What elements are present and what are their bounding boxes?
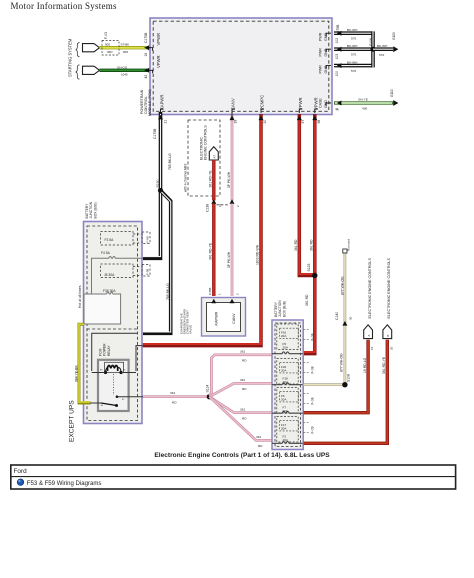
wire case ground GN to G110 [334,98,393,111]
svg-text:ST-BK: ST-BK [121,43,130,47]
svg-text:20A: 20A [281,426,286,430]
svg-text:20A: 20A [283,380,288,384]
wire 361 RD-YE to EVAP valve [212,204,215,297]
svg-text:361: 361 [256,435,261,439]
label EVAP valve [179,309,192,334]
svg-text:16: 16 [144,53,148,57]
svg-text:361: 361 [240,349,245,353]
svg-text:PWR: PWR [319,32,323,41]
connector C140 arrow [342,321,347,326]
svg-text:102: 102 [335,38,339,44]
svg-text:F-09: F-09 [310,426,314,433]
svg-text:G110: G110 [390,89,394,97]
wire PK-WH to EVAP valve [231,204,234,297]
svg-text:570: 570 [351,53,356,57]
coil feed wires inside BJB [92,333,137,371]
splice S108 [342,382,347,387]
svg-text:905: 905 [123,50,128,54]
svg-text:361 RD-YE: 361 RD-YE [208,170,212,188]
wire 361 RD-YE from F2 to connector B [304,340,388,444]
fuse F3 5A [101,232,151,246]
svg-text:16: 16 [370,346,374,350]
svg-text:RELAY: RELAY [107,345,111,356]
PCM right pin names [319,32,328,108]
svg-text:GN-OG: GN-OG [117,65,128,69]
wire 19 RD-LG from F7 to connector A [304,340,369,413]
svg-text:F3 5A: F3 5A [105,238,115,242]
svg-text:570: 570 [351,69,356,73]
svg-text:F36 30A: F36 30A [103,289,116,293]
svg-text:361: 361 [240,378,245,382]
fuse groups right BJB [272,324,303,443]
svg-text:361 RD: 361 RD [309,239,313,251]
svg-text:785 BK-LG: 785 BK-LG [168,153,172,170]
PCM right pin numbers [335,24,340,110]
svg-text:VPWR: VPWR [156,55,161,68]
svg-text:ENGINE CONTROLS: ENGINE CONTROLS [204,125,208,160]
wire S114 to fuse F7 [209,397,272,421]
svg-text:PCMPC: PCMPC [260,95,265,110]
brace 1 [76,43,80,57]
splice S123 [312,273,317,278]
battery junction box right [272,320,303,450]
fuse F4 5A feeding KAPWR [92,251,144,294]
label BJB left [85,201,97,218]
svg-text:J5 30A: J5 30A [104,273,115,277]
svg-text:1045: 1045 [121,73,128,77]
svg-text:VALVE: VALVE [188,325,192,334]
connector labels F-08 / F-09 [304,330,315,434]
svg-text:RD: RD [242,387,247,391]
svg-text:361: 361 [240,407,245,411]
fuse F36 30A on battery bus [84,289,121,324]
svg-text:100: 100 [335,71,339,77]
label BJB right [274,300,286,317]
svg-text:10: 10 [218,203,222,207]
svg-text:361 RD: 361 RD [305,294,309,306]
wire KAPWR 785 BK-LG from PCM [158,112,163,191]
wire yellow 905 to PCM pin 16 [100,45,153,51]
connector B [383,325,392,339]
wire S114 to fuse F2 [209,397,272,448]
svg-text:19 RD-LG: 19 RD-LG [363,357,367,373]
svg-text:BOX (BJB): BOX (BJB) [282,301,286,317]
PCM right pin hooks [326,33,331,36]
svg-text:ELECTRONIC ENGINE CONTROLS: ELECTRONIC ENGINE CONTROLS [387,258,391,319]
PCM bottom pin names [159,95,318,113]
svg-text:361 RD-YE: 361 RD-YE [382,356,386,374]
battery junction box left [84,222,143,424]
svg-text:CASE: CASE [319,98,323,108]
wire 361 RD-YE from EEC [212,160,215,201]
svg-text:20A: 20A [283,409,288,413]
wire CANV PK-WH from PCM [230,112,235,201]
svg-text:S106: S106 [369,38,373,46]
svg-text:785 BK-LG: 785 BK-LG [166,283,170,300]
splice S106 [371,47,376,52]
svg-text:20A: 20A [281,368,286,372]
svg-text:S108: S108 [347,374,351,382]
svg-text:Electronic Engine Controls (Pa: Electronic Engine Controls (Part 1 of 14… [154,452,330,459]
svg-text:1803 RD-WH: 1803 RD-WH [256,244,260,265]
svg-text:C458: C458 [208,287,212,295]
svg-text:3F PK-WH: 3F PK-WH [227,251,231,268]
svg-text:570: 570 [379,53,384,57]
svg-text:G109: G109 [392,32,396,40]
fuse J5 30A [101,264,151,278]
wire branch 785 BK-LG to relay coil [143,191,171,334]
splice S150 [158,188,163,193]
svg-text:BK-WH: BK-WH [347,44,357,48]
terminal not used [343,249,347,253]
op PCM box [150,18,332,115]
wire BK-WH 570 top [334,28,373,40]
svg-text:GN-YE: GN-YE [358,98,368,102]
svg-text:F-03: F-03 [104,32,108,39]
svg-text:PWR: PWR [319,65,323,74]
svg-text:RD: RD [172,400,177,404]
svg-text:3: 3 [336,109,340,111]
svg-text:EXCEPT UPS: EXCEPT UPS [69,400,76,442]
svg-text:Hot at all times: Hot at all times [78,285,82,308]
connector A [364,325,373,339]
wire green to PCM pin 42 [100,68,153,74]
wire S114 to fuse F5 [209,349,272,395]
connector pentagon A7 [209,147,218,160]
wire BK-WH to G109 [373,44,393,57]
svg-text:KAPWR: KAPWR [159,95,164,110]
svg-text:98: 98 [317,120,321,124]
footer table [11,465,456,489]
svg-text:S123: S123 [307,263,311,271]
svg-text:877 WH-OG: 877 WH-OG [340,353,344,372]
svg-text:BK-WH: BK-WH [347,28,357,32]
svg-text:103: 103 [335,54,339,60]
wire branch to BJB fuse F4 [143,191,161,259]
svg-text:VPWR: VPWR [298,97,303,110]
svg-text:20: 20 [263,120,267,124]
svg-text:F-08: F-08 [310,397,314,404]
svg-text:570: 570 [351,37,356,41]
svg-text:3F PK-WH: 3F PK-WH [227,171,231,188]
svg-text:BK-WH: BK-WH [347,61,357,65]
svg-text:F-08: F-08 [310,333,314,340]
svg-text:with 4 channel ABS: with 4 channel ABS [184,163,188,192]
svg-text:STARTING SYSTEM: STARTING SYSTEM [68,38,73,77]
svg-text:36D: 36D [107,50,113,54]
svg-text:BK-WH: BK-WH [377,44,387,48]
svg-text:97: 97 [301,120,305,124]
svg-text:F4 5A: F4 5A [101,251,111,255]
svg-text:905: 905 [105,43,110,47]
svg-text:CANV: CANV [231,98,236,110]
svg-text:CANV: CANV [232,313,236,324]
label PCM POWER RELAY [98,343,110,356]
svg-text:ELECTRONIC ENGINE CONTROLS: ELECTRONIC ENGINE CONTROLS [368,258,372,319]
svg-text:S150: S150 [156,179,160,187]
svg-text:361: 361 [170,391,175,395]
svg-text:C138: C138 [206,204,210,212]
svg-text:20A: 20A [283,345,288,349]
ground G109 [393,46,398,52]
svg-text:20A: 20A [281,334,286,338]
wire PCMPC RD from PCM to relay coil [143,114,264,346]
wire 361 RD relay output [143,391,209,404]
svg-text:20A: 20A [283,438,288,442]
svg-text:984 YE-BK: 984 YE-BK [75,365,79,382]
wire vertical bus joining grounds [371,31,375,67]
wire BK-WH 570 middle [334,44,373,56]
svg-text:S114: S114 [205,385,209,393]
svg-text:VPWR: VPWR [156,33,161,46]
label PCM name [140,89,152,116]
svg-text:Ford: Ford [14,468,28,475]
svg-text:877 WH-OG: 877 WH-OG [341,276,345,295]
svg-text:C175B: C175B [144,32,148,43]
svg-text:RD: RD [258,444,263,448]
wire S114 to fuse F18 [209,378,272,397]
svg-text:20A: 20A [281,397,286,401]
svg-text:F-08: F-08 [310,366,314,373]
splice S114 [207,394,212,399]
svg-text:C140: C140 [335,312,339,320]
svg-text:F53 & F59 Wiring Diagrams: F53 & F59 Wiring Diagrams [27,481,102,487]
wire BK-WH 570 bottom [334,61,373,73]
svg-text:F-08: F-08 [145,236,149,243]
PCM bottom pin numbers [163,120,320,124]
EVAP canister vent valve box [202,298,246,337]
svg-text:F-08: F-08 [145,269,149,276]
svg-text:B: B [386,335,390,337]
svg-text:21: 21 [163,120,167,124]
svg-text:39: 39 [234,120,238,124]
brace 2 [76,65,80,79]
svg-text:42: 42 [144,75,148,79]
connector pentagon 1 [83,44,100,52]
svg-text:30: 30 [348,316,352,320]
connector C138 arrow on red wire [211,199,216,204]
connector pentagon 2 [83,66,100,74]
EEC box (with 4 channel ABS) [188,120,220,196]
wire VPWR 361 RD pin 97 [297,114,313,276]
svg-text:Not used: Not used [346,239,350,251]
svg-text:436: 436 [362,107,367,111]
svg-text:A7: A7 [212,154,216,158]
svg-text:C175B: C175B [153,128,157,139]
svg-text:Motor Information Systems: Motor Information Systems [11,1,117,11]
svg-text:PWR: PWR [319,48,323,57]
connector C138 dashed link [217,204,230,206]
svg-text:361 RD: 361 RD [294,239,298,251]
relay PCM power relay [90,360,143,411]
svg-text:BOX (BJB): BOX (BJB) [93,202,97,218]
svg-text:361 RD-YE: 361 RD-YE [208,242,212,260]
svg-text:20: 20 [389,346,393,350]
ground G110 [393,100,398,106]
svg-text:RD: RD [242,417,247,421]
wire 984 YE-BK battery feed to relay [79,324,91,403]
wire 877 WH-OG from F18 [304,253,345,385]
svg-text:MODULE (PCM): MODULE (PCM) [148,89,152,116]
icon blue dot [17,479,23,485]
svg-text:RD: RD [242,359,247,363]
wire VPWR 361 RD pin 98 down to BJB F5 [302,114,317,354]
svg-text:KAPWR: KAPWR [215,311,219,325]
